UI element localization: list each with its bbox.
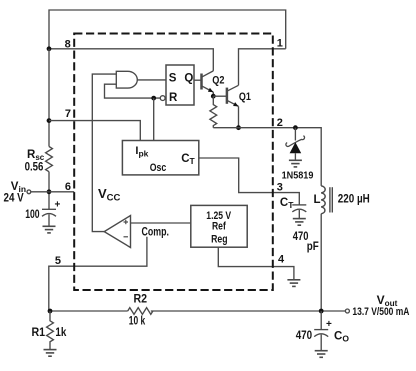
svg-text:13.7 V/500 mA: 13.7 V/500 mA bbox=[352, 306, 409, 318]
svg-text:6: 6 bbox=[65, 181, 71, 193]
diode D1 1N5819 bbox=[286, 128, 305, 161]
resistor R1 bbox=[47, 311, 54, 350]
inverter bubble R input bbox=[160, 96, 165, 101]
svg-text:1N5819: 1N5819 bbox=[282, 170, 314, 182]
ground CT bbox=[293, 219, 306, 226]
ground 100uF bbox=[43, 226, 56, 233]
node pin6 junction bbox=[47, 189, 52, 194]
wire pin 2 to inductor bbox=[213, 128, 321, 186]
svg-text:1k: 1k bbox=[55, 327, 67, 339]
plus sign comparator bbox=[124, 220, 129, 224]
resistor R2 bbox=[128, 308, 153, 315]
wire R node to Osc bbox=[153, 98, 155, 140]
minus sign comparator bbox=[124, 236, 129, 238]
ground pin 4 bbox=[287, 280, 300, 287]
svg-text:S: S bbox=[169, 72, 177, 84]
wire pin 8 to Q2 collector bbox=[49, 49, 213, 71]
terminal Vout bbox=[345, 309, 349, 313]
capacitor CT 470pF bbox=[292, 205, 306, 219]
svg-text:pF: pF bbox=[307, 241, 319, 253]
ground Co bbox=[315, 351, 328, 358]
wire inductor to output bbox=[320, 214, 322, 311]
node R1 R2 junction bbox=[48, 309, 53, 314]
wire bottom rail left bbox=[50, 310, 128, 312]
and-gate U2 bbox=[116, 71, 137, 88]
wire left rail lower bbox=[48, 172, 50, 210]
wire pin 5 feedback bbox=[49, 237, 147, 311]
wire comparator plus to ref bbox=[131, 222, 191, 224]
and-gate lower input wire bbox=[105, 84, 161, 98]
svg-text:Comp.: Comp. bbox=[142, 226, 169, 238]
svg-text:4: 4 bbox=[278, 254, 285, 266]
node output junction bbox=[319, 309, 324, 314]
svg-text:1: 1 bbox=[277, 38, 283, 50]
wire top rail bbox=[49, 10, 286, 49]
resistor Rsc bbox=[46, 147, 53, 172]
inductor L bbox=[321, 186, 332, 214]
svg-text:Ref: Ref bbox=[212, 221, 226, 233]
svg-text:3: 3 bbox=[277, 181, 283, 193]
svg-text:470: 470 bbox=[296, 330, 312, 342]
capacitor Co bbox=[314, 311, 328, 351]
wire left rail upper bbox=[48, 49, 50, 147]
svg-text:2: 2 bbox=[277, 117, 283, 129]
node pin7 junction bbox=[47, 118, 52, 123]
wire AND out to S bbox=[137, 79, 166, 81]
IC dashed boundary bbox=[74, 34, 273, 291]
svg-text:+: + bbox=[326, 319, 332, 330]
terminal Vin bbox=[27, 190, 31, 194]
svg-text:Rsc: Rsc bbox=[27, 149, 45, 162]
box Ref Reg bbox=[191, 205, 247, 247]
node diode junction bbox=[293, 125, 298, 130]
transistor Q2 bbox=[202, 71, 214, 96]
wire Q out to Q2 base bbox=[194, 79, 202, 81]
svg-text:R1: R1 bbox=[32, 327, 46, 339]
wire CT from Osc to pin 3 bbox=[199, 158, 299, 205]
resistor Q2 emitter bbox=[210, 96, 217, 128]
capacitor 100uF bbox=[42, 209, 56, 226]
svg-text:Q2: Q2 bbox=[212, 75, 224, 87]
svg-text:+: + bbox=[55, 200, 61, 211]
svg-text:7: 7 bbox=[65, 108, 71, 120]
box Osc bbox=[122, 141, 198, 175]
svg-text:L: L bbox=[314, 194, 321, 206]
svg-text:Reg: Reg bbox=[211, 233, 227, 245]
svg-text:24 V: 24 V bbox=[4, 193, 24, 205]
transistor Q1 bbox=[227, 85, 239, 127]
wire Q2 emitter to Q1 base bbox=[213, 95, 227, 97]
svg-text:8: 8 bbox=[65, 39, 71, 51]
svg-text:5: 5 bbox=[55, 255, 61, 267]
node R input junction bbox=[151, 96, 156, 101]
ground R1 bbox=[44, 350, 57, 357]
wire pin 1 to Q1 collector bbox=[239, 49, 286, 86]
op-amp comparator bbox=[104, 216, 130, 248]
node 8 junction bbox=[47, 46, 52, 51]
svg-text:220 µH: 220 µH bbox=[338, 194, 370, 206]
node Q1 emitter junction bbox=[236, 125, 241, 130]
wire pin 6 Vin bbox=[31, 191, 74, 193]
wire ref to pin 4 ground bbox=[218, 247, 294, 280]
svg-text:R2: R2 bbox=[134, 293, 148, 305]
svg-text:R: R bbox=[169, 92, 178, 104]
wire bottom rail right bbox=[151, 310, 346, 312]
svg-text:10 k: 10 k bbox=[129, 316, 146, 328]
svg-text:VCC: VCC bbox=[98, 186, 121, 203]
svg-text:0.56: 0.56 bbox=[25, 162, 44, 174]
svg-text:CO: CO bbox=[334, 331, 349, 344]
latch U3 box bbox=[166, 65, 194, 105]
node Q2 emitter junction bbox=[211, 94, 216, 99]
wire pin 7 bbox=[49, 121, 140, 141]
svg-text:Q1: Q1 bbox=[239, 91, 251, 103]
svg-text:Q: Q bbox=[184, 72, 193, 84]
svg-text:CT: CT bbox=[280, 197, 294, 210]
ground diode bbox=[289, 160, 302, 167]
svg-text:Osc: Osc bbox=[150, 162, 167, 174]
svg-text:100: 100 bbox=[25, 209, 39, 221]
comparator output wire bbox=[92, 74, 116, 232]
